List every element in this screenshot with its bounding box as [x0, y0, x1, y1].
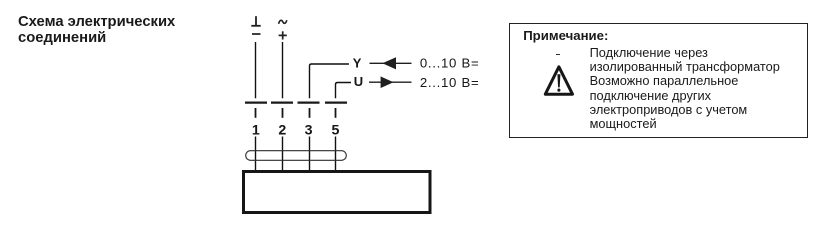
note text [590, 46, 780, 132]
wire terminal 2 [282, 42, 284, 98]
lower wire pin 5 [335, 137, 337, 171]
svg-text:2: 2 [278, 123, 286, 139]
svg-text:U: U [354, 74, 363, 89]
bullet dash [556, 54, 561, 55]
cable sleeve (pill) [246, 151, 347, 161]
wire terminal 1 [255, 42, 257, 98]
lower wire pin 1 [255, 137, 257, 171]
dashed lead pin 5 [335, 108, 337, 118]
lower wire pin 3 [309, 137, 311, 171]
AC symbol (~) terminal 2 [279, 20, 287, 24]
svg-text:Y: Y [353, 56, 362, 71]
signal line Y with arrow (input) [370, 57, 412, 69]
signal line U with arrow (output) [369, 76, 412, 88]
ground symbol terminal 1 [251, 16, 260, 26]
note heading [523, 29, 608, 43]
minus polarity label terminal 1 [252, 33, 261, 35]
wire Y to terminal 3 [310, 64, 350, 98]
svg-text:0...10 В=: 0...10 В= [420, 56, 479, 71]
dashed lead pin 3 [309, 108, 311, 118]
svg-text:2...10 В=: 2...10 В= [420, 75, 479, 90]
wire U to terminal 5 [336, 83, 352, 99]
svg-text:5: 5 [331, 123, 339, 139]
svg-text:3: 3 [305, 123, 313, 139]
warning triangle [543, 64, 577, 98]
terminal bar 2 [271, 101, 293, 103]
actuator body [244, 172, 431, 213]
lower wire pin 2 [282, 137, 284, 171]
dashed lead pin 1 [255, 108, 257, 118]
terminal bar 5 [325, 101, 347, 103]
terminal bar 3 [298, 101, 320, 103]
svg-text:1: 1 [252, 123, 260, 139]
plus polarity label terminal 2 [279, 31, 287, 39]
title: Схема электрических соединений [18, 14, 175, 46]
dashed lead pin 2 [282, 108, 284, 118]
note box [509, 23, 808, 138]
terminal bar 1 [245, 101, 267, 103]
